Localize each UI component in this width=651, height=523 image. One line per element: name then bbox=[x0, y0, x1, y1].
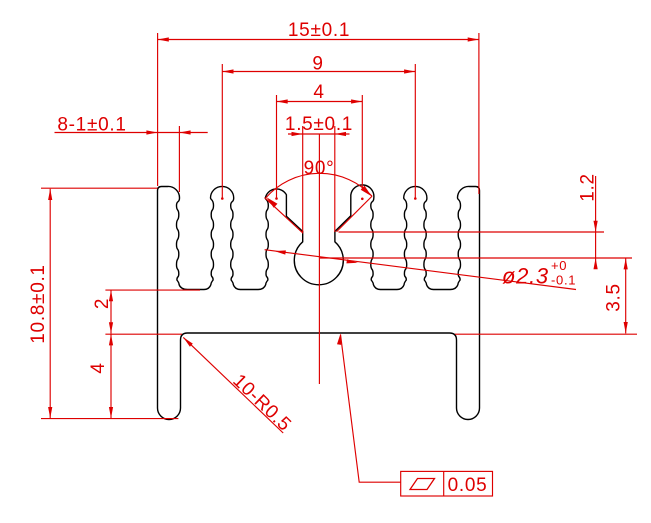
dim 1.5 extension line right bbox=[334, 126, 336, 232]
dia 2.3 leader line bbox=[265, 250, 576, 290]
svg-text:8-1±0.1: 8-1±0.1 bbox=[57, 115, 126, 136]
svg-text:1.2: 1.2 bbox=[578, 173, 599, 202]
dim 15&#177;0.1 dimension line bbox=[158, 39, 479, 41]
dim 9 dimension line bbox=[222, 71, 415, 73]
parallelism symbol bbox=[410, 479, 435, 490]
dim 4 extension line left bbox=[276, 95, 278, 199]
svg-text:15±0.1: 15±0.1 bbox=[288, 20, 350, 41]
45 deg construction line right bbox=[337, 196, 373, 232]
svg-text:9: 9 bbox=[312, 54, 323, 75]
dim 2 extension line top bbox=[105, 289, 200, 291]
extension line groove wall top bbox=[339, 231, 605, 233]
base bottom extension line left bbox=[105, 333, 182, 335]
svg-text:1.5±0.1: 1.5±0.1 bbox=[285, 114, 353, 135]
leader 10-R0.5 bbox=[183, 337, 283, 433]
svg-text:10.8±0.1: 10.8±0.1 bbox=[28, 264, 49, 343]
dim 10.8 extension line bottom bbox=[41, 418, 178, 420]
dim 15 extension line left bbox=[157, 33, 159, 186]
dim 4 dimension line bbox=[277, 101, 363, 103]
svg-text:4: 4 bbox=[313, 82, 324, 103]
dim 90 deg arc bbox=[266, 173, 372, 197]
svg-text:2: 2 bbox=[92, 298, 113, 309]
dim 1.2 dimension line bbox=[595, 176, 597, 269]
svg-text:+0: +0 bbox=[551, 258, 567, 273]
dim 1.5 extension line left bbox=[302, 126, 304, 232]
dim 8-1&#177;0.1 dimension line bbox=[55, 132, 208, 134]
dim 9 extension line right bbox=[414, 64, 416, 199]
base bottom extension line right bbox=[455, 333, 637, 335]
dim 4 left dimension line bbox=[110, 333, 112, 418]
dim 1.5&#177;0.1 dimension line bbox=[288, 133, 350, 135]
svg-text:0.05: 0.05 bbox=[448, 475, 488, 496]
svg-text:3.5: 3.5 bbox=[604, 283, 625, 312]
svg-text:ø2.3: ø2.3 bbox=[502, 264, 549, 289]
dim 4 extension line right bbox=[361, 95, 363, 190]
dimension arrowheads and reference dots bbox=[48, 37, 628, 418]
svg-text:90°: 90° bbox=[304, 158, 335, 179]
leader to feature control frame bbox=[341, 335, 401, 483]
hole vertical center line bbox=[318, 135, 320, 385]
svg-text:-0.1: -0.1 bbox=[551, 273, 576, 288]
45 deg construction line left bbox=[265, 198, 304, 234]
dim 8-1 extension line right bbox=[178, 126, 180, 192]
heatsink profile outline bbox=[158, 185, 480, 420]
feature control frame box bbox=[401, 471, 493, 496]
dim 3.5 dimension line bbox=[625, 258, 627, 333]
dim 2 dimension line bbox=[110, 290, 112, 333]
dim 15 extension line right bbox=[478, 33, 480, 194]
extension line hole center bbox=[320, 257, 632, 259]
svg-text:4: 4 bbox=[88, 362, 109, 373]
dim 10.8&#177;0.1 dimension line bbox=[49, 189, 51, 418]
dim 10.8 extension line top bbox=[41, 187, 158, 189]
dim 9 extension line left bbox=[221, 64, 223, 199]
